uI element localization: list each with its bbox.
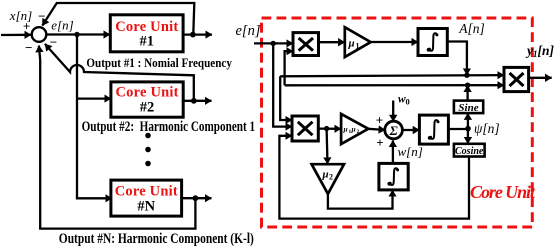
junction psi node	[465, 126, 471, 132]
svg-text:#2: #2	[140, 100, 155, 116]
svg-text:Output #1 : Nomial Frequency: Output #1 : Nomial Frequency	[86, 55, 232, 70]
output multiplier M3	[504, 67, 529, 91]
svg-text:#1: #1	[139, 34, 154, 50]
wire feedback output1 to summer top	[42, 3, 194, 34]
junction output 1	[190, 32, 196, 38]
integrator I1	[418, 29, 447, 56]
svg-text:Core Unit: Core Unit	[115, 184, 178, 200]
dashed core unit boundary	[262, 18, 533, 227]
svg-text:μ: μ	[343, 125, 348, 134]
wire branch to core unit N	[77, 197, 112, 198]
wire y output	[529, 77, 552, 79]
wire mu1 to integrator I1	[371, 41, 418, 43]
wire w0 into sigma	[392, 101, 394, 122]
svg-text:Output #2: Harmonic Component: Output #2: Harmonic Component 1	[82, 119, 256, 135]
svg-text:e[n]: e[n]	[236, 23, 261, 39]
wire M2 to amp mu1mu2	[318, 127, 341, 129]
svg-text:A[n]: A[n]	[458, 21, 485, 36]
wire A[n] product line to output multiplier	[280, 75, 504, 76]
svg-text:0: 0	[406, 97, 410, 107]
svg-text:w[n]: w[n]	[398, 144, 423, 159]
core unit block N	[111, 180, 182, 216]
svg-text:Cosine: Cosine	[455, 146, 484, 157]
svg-text:#N: #N	[137, 199, 155, 215]
svg-text:Output #N: Harmonic Component: Output #N: Harmonic Component (K-l)	[59, 231, 254, 247]
svg-text:μ: μ	[322, 169, 329, 181]
svg-text:Sine: Sine	[458, 102, 478, 114]
label integral glyph I3	[390, 168, 397, 185]
svg-text:y1[n]: y1[n]	[525, 43, 555, 59]
wire I2 to psi node	[448, 128, 468, 130]
junction sine line	[465, 83, 470, 88]
wire mu1mu2 to sigma	[368, 129, 385, 130]
wire output N	[182, 197, 212, 199]
core unit block 2	[111, 82, 183, 117]
ellipsis dots	[145, 133, 151, 139]
sine block	[454, 101, 483, 114]
amplifier mu1	[345, 27, 371, 57]
svg-text:−: −	[25, 40, 32, 55]
svg-text:Core Unit: Core Unit	[470, 182, 536, 202]
wire feedback output2 to summer with hop	[45, 44, 194, 100]
amplifier mu1mu2	[341, 114, 368, 144]
svg-text:−: −	[50, 35, 57, 50]
wire e[n] input right	[254, 42, 293, 44]
cosine block	[454, 144, 485, 157]
wire e[n] to core unit 1	[46, 33, 110, 35]
integrator I3	[379, 163, 408, 190]
wire e[n] distribution vertical	[76, 35, 78, 199]
wire psi up to sine	[467, 113, 469, 129]
junction M2 out	[324, 126, 329, 131]
junction A line	[464, 73, 469, 78]
svg-text:2: 2	[357, 129, 360, 135]
integrator I2	[419, 115, 448, 144]
junction output 2	[191, 98, 197, 104]
svg-text:Σ: Σ	[389, 123, 398, 138]
junction e[n] right	[271, 41, 276, 46]
wire branch to core unit 2	[77, 97, 111, 99]
wire e[n] down to M2	[273, 43, 292, 126]
wire A[n] down to product line	[447, 42, 467, 76]
label integral glyph I1	[430, 33, 437, 51]
label integral glyph I2	[431, 120, 438, 139]
svg-text:1: 1	[356, 42, 360, 51]
wire M1 to amp mu1	[319, 41, 345, 43]
wire M2 out down to mu2	[325, 129, 328, 164]
wire sine to M1	[285, 51, 293, 85]
junction e[n]	[74, 32, 79, 37]
svg-text:+: +	[376, 113, 383, 128]
wire cosine feedback to M2	[279, 136, 469, 219]
svg-text:2: 2	[329, 173, 333, 182]
core unit block 1	[110, 15, 183, 52]
svg-text:+: +	[376, 135, 383, 150]
svg-text:ψ[n]: ψ[n]	[474, 121, 500, 136]
summing junction S1	[32, 27, 47, 42]
wire sine product line to output multiplier	[285, 84, 504, 86]
wire I3 to sigma bottom	[392, 140, 394, 163]
junction output N	[193, 195, 199, 201]
wire mu2 to integrator I3	[328, 190, 393, 209]
amplifier mu2	[312, 164, 344, 194]
svg-text:Core Unit: Core Unit	[116, 85, 179, 101]
summer sigma	[385, 121, 403, 139]
wire A line down to M2	[280, 76, 292, 120]
wire sine box up to line2	[466, 85, 468, 100]
svg-text:e[n]: e[n]	[51, 18, 73, 33]
wire sigma to integrator I2	[402, 129, 419, 131]
multiplier M1	[293, 33, 319, 56]
wire psi down to cosine	[467, 129, 469, 144]
multiplier M2	[292, 116, 318, 141]
wire output 1	[182, 33, 212, 35]
wire feedback outputN to summer bottom	[39, 46, 196, 229]
svg-text:+: +	[23, 19, 30, 34]
wire output 2	[182, 100, 212, 102]
svg-text:μ: μ	[348, 38, 355, 50]
svg-text:μ: μ	[351, 125, 356, 134]
wire x[n] input	[1, 34, 31, 37]
